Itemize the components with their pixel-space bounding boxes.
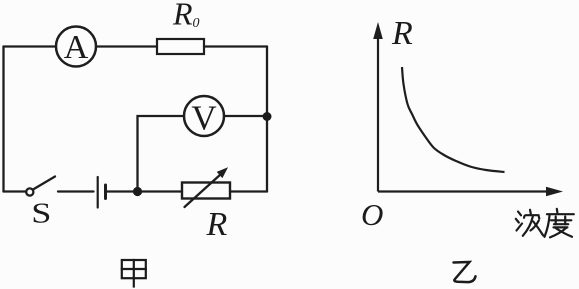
- svg-text:R: R: [206, 206, 228, 243]
- wire junction to rheostat: [138, 190, 183, 192]
- switch S circle: [26, 188, 33, 195]
- graph y-axis arrowhead: [373, 22, 383, 39]
- wire voltmeter right lead: [224, 115, 267, 117]
- junction node right (voltmeter tap): [263, 112, 272, 121]
- junction node bottom (battery/voltmeter tap): [133, 187, 142, 196]
- label 甲 (jiǎ, drawn strokes): [122, 260, 146, 287]
- graph y-axis R: [377, 36, 379, 192]
- label 度 (concentration char 2, drawn strokes): [545, 209, 574, 238]
- label 浓 (concentration char 1, drawn strokes): [516, 210, 543, 236]
- graph curve R vs concentration: [402, 67, 505, 172]
- wire rheostat to right corner: [230, 190, 267, 192]
- battery long plate: [97, 177, 99, 208]
- rheostat R arrow shaft: [185, 174, 222, 207]
- svg-text:V: V: [191, 99, 216, 138]
- graph x-axis arrowhead: [546, 187, 563, 197]
- rheostat R arrowhead: [217, 167, 228, 178]
- svg-text:R0: R0: [172, 0, 200, 32]
- svg-text:O: O: [361, 197, 383, 232]
- wire battery to junction: [107, 190, 138, 192]
- wire switch to battery: [58, 190, 94, 192]
- wire R0 to right corner: [204, 45, 267, 47]
- rheostat R body: [182, 183, 230, 199]
- wire ammeter to R0: [96, 45, 157, 47]
- svg-text:S: S: [31, 198, 51, 230]
- ammeter A1 circle: [56, 27, 96, 67]
- label 乙 (yǐ, drawn strokes): [454, 262, 476, 282]
- wire right vertical: [266, 47, 268, 192]
- voltmeter V1 circle: [184, 96, 224, 136]
- wire voltmeter left lead: [138, 116, 185, 192]
- wire bottom rail to switch: [4, 190, 27, 192]
- wire left vertical: [2, 47, 4, 192]
- wire top rail left segment: [4, 45, 57, 47]
- svg-text:A: A: [64, 29, 89, 66]
- resistor R0 body: [157, 39, 204, 54]
- svg-text:R: R: [391, 15, 413, 52]
- switch S lever: [33, 177, 55, 190]
- battery short plate: [104, 185, 107, 199]
- graph x-axis: [378, 190, 549, 192]
